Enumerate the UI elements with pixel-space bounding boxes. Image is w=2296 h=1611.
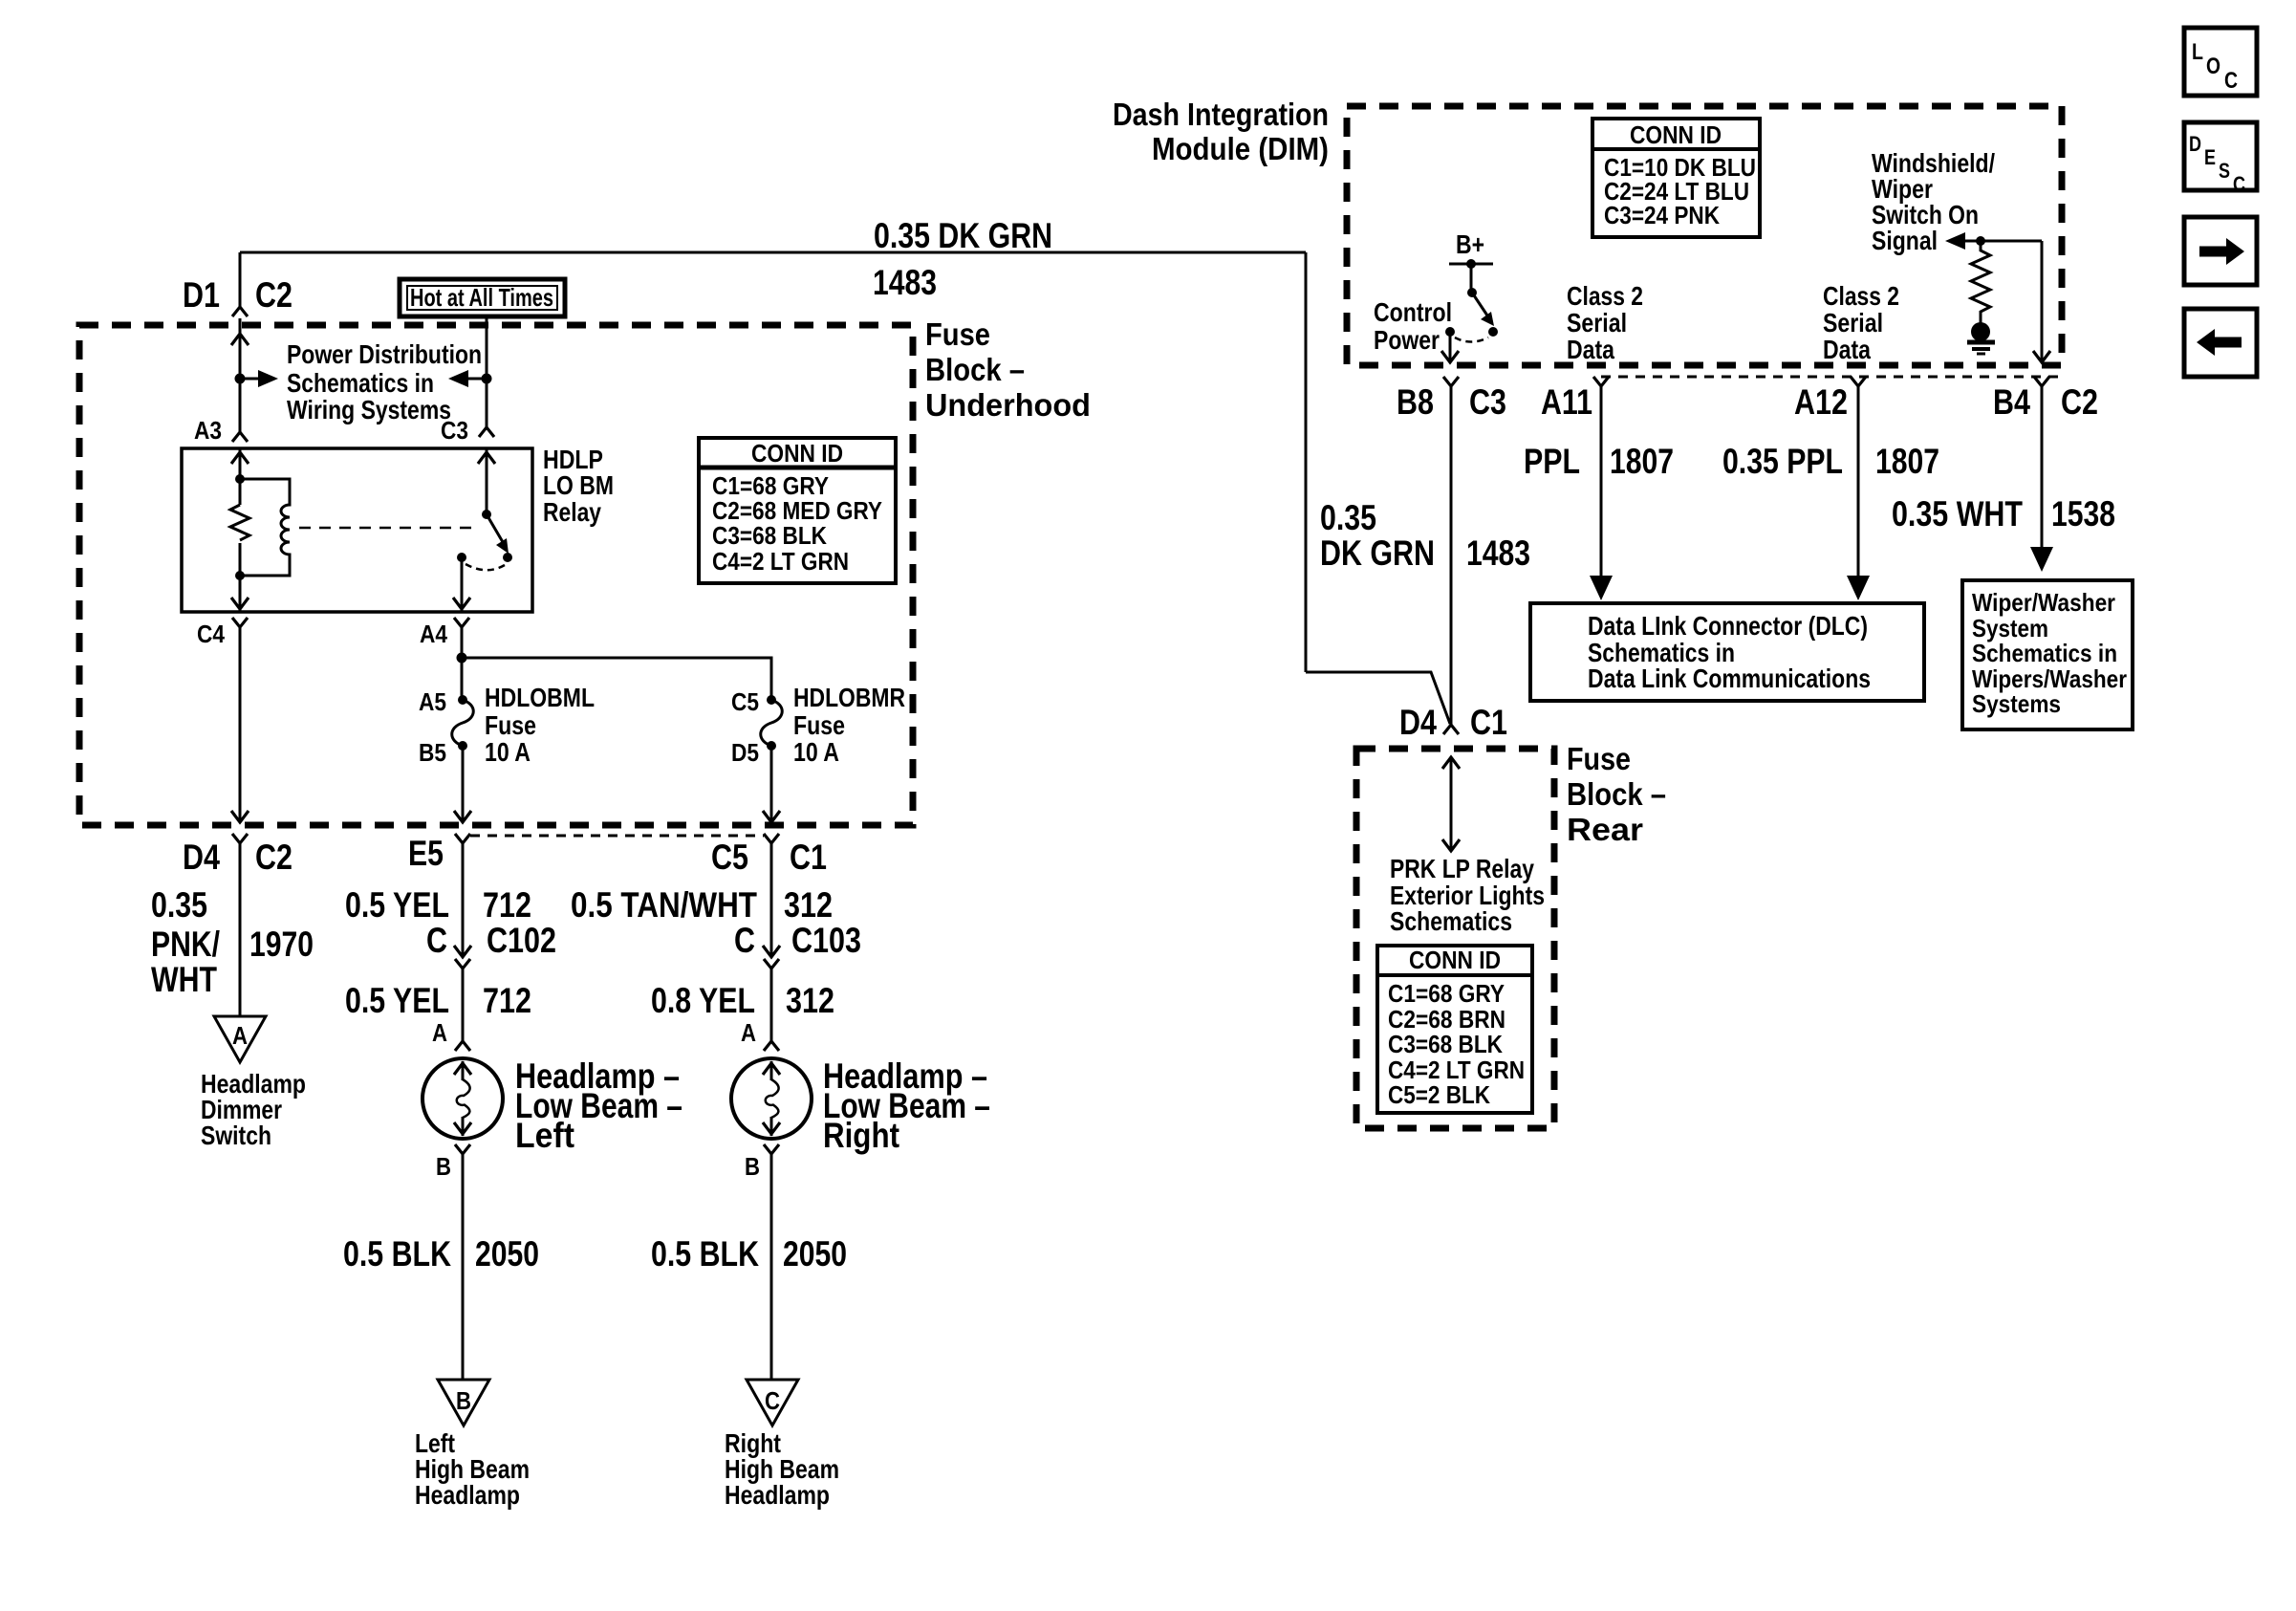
pin A4 xyxy=(454,618,469,627)
svg-text:0.5 BLK: 0.5 BLK xyxy=(343,1234,451,1274)
wire left lamp ground xyxy=(462,1154,465,1380)
ground wiper signal xyxy=(1971,322,1990,341)
svg-text:C1=68 GRY: C1=68 GRY xyxy=(1388,979,1505,1008)
relay output wire A4 xyxy=(461,557,464,612)
nav box arrow right xyxy=(2184,217,2257,285)
DIM dashed boundary xyxy=(1347,106,2062,365)
svg-text:DK GRN: DK GRN xyxy=(1320,533,1435,573)
svg-text:C103: C103 xyxy=(791,921,861,960)
svg-text:Block –: Block – xyxy=(925,352,1025,387)
CONN ID box rear xyxy=(1377,946,1532,1113)
svg-text:0.35: 0.35 xyxy=(1320,498,1376,537)
connector E5 xyxy=(455,834,470,843)
svg-text:Left: Left xyxy=(515,1116,574,1155)
svg-text:Serial: Serial xyxy=(1567,308,1627,337)
relay switch common wire xyxy=(486,448,488,514)
svg-text:0.35 PPL: 0.35 PPL xyxy=(1722,442,1843,481)
svg-text:1483: 1483 xyxy=(1466,533,1530,573)
svg-text:Wiring Systems: Wiring Systems xyxy=(287,395,451,425)
wire right lamp ground xyxy=(770,1154,773,1380)
CONN ID box DIM xyxy=(1592,119,1760,237)
svg-text:C3=68 BLK: C3=68 BLK xyxy=(1388,1030,1503,1058)
svg-text:D4: D4 xyxy=(1399,703,1437,742)
switch arm B+ xyxy=(1472,293,1487,316)
relay contacts xyxy=(457,553,466,562)
arrow from hot wire to note xyxy=(468,378,487,381)
svg-text:C2: C2 xyxy=(255,838,292,877)
nav box DESC xyxy=(2184,122,2257,190)
svg-text:B: B xyxy=(745,1152,760,1181)
svg-text:C1: C1 xyxy=(790,838,827,877)
wire branch to right fuse xyxy=(462,658,771,700)
svg-text:C3=68 BLK: C3=68 BLK xyxy=(712,521,827,550)
relay contact dashed arc xyxy=(466,564,505,570)
svg-text:B8: B8 xyxy=(1397,382,1434,422)
svg-text:Fuse: Fuse xyxy=(925,316,990,352)
svg-text:0.35: 0.35 xyxy=(151,885,207,925)
node junction left xyxy=(235,374,246,384)
svg-text:Power Distribution: Power Distribution xyxy=(287,339,482,369)
svg-text:Fuse: Fuse xyxy=(1567,741,1631,776)
wire 1483 horizontal to rear block xyxy=(1306,672,1450,724)
svg-text:Schematics in: Schematics in xyxy=(1972,639,2117,667)
svg-text:C4: C4 xyxy=(197,620,225,648)
svg-text:A: A xyxy=(741,1018,756,1047)
svg-text:Relay: Relay xyxy=(543,497,601,527)
svg-text:C2: C2 xyxy=(2061,382,2098,422)
wire C4 down to D4/C2 xyxy=(239,627,242,822)
svg-text:1807: 1807 xyxy=(1610,442,1674,481)
fuse block rear dashed boundary xyxy=(1356,749,1554,1128)
svg-text:2050: 2050 xyxy=(783,1234,847,1274)
svg-text:A: A xyxy=(232,1021,248,1050)
svg-text:B: B xyxy=(436,1152,451,1181)
pin A3 xyxy=(232,432,248,442)
svg-text:CONN ID: CONN ID xyxy=(1409,946,1501,974)
control power arrow xyxy=(1449,332,1452,361)
connector D1/C2 xyxy=(232,307,248,316)
connector face dashed line E5-C5 xyxy=(470,835,764,838)
svg-text:Class 2: Class 2 xyxy=(1823,281,1899,311)
wire left vertical drop to D1 xyxy=(239,252,242,307)
svg-text:Hot at All Times: Hot at All Times xyxy=(410,283,553,312)
pin A left lamp xyxy=(455,1041,470,1051)
connector D4/C1 xyxy=(1443,725,1459,734)
svg-text:Headlamp: Headlamp xyxy=(415,1480,520,1510)
svg-text:Systems: Systems xyxy=(1972,689,2061,718)
svg-text:1970: 1970 xyxy=(249,925,314,964)
svg-text:S: S xyxy=(2219,159,2230,183)
resistor wiper signal xyxy=(1971,241,1990,325)
relay switch arm xyxy=(487,514,503,542)
svg-text:B5: B5 xyxy=(419,738,446,767)
resistor (relay) xyxy=(230,505,249,540)
svg-text:2050: 2050 xyxy=(475,1234,539,1274)
connector face dashed line A11-B4 xyxy=(1601,376,2062,379)
svg-text:Headlamp: Headlamp xyxy=(725,1480,830,1510)
svg-text:Switch: Switch xyxy=(201,1121,271,1150)
svg-text:712: 712 xyxy=(483,885,531,925)
wire hot feed down xyxy=(486,316,488,427)
svg-text:D5: D5 xyxy=(731,738,759,767)
ground triangle B xyxy=(438,1380,489,1426)
svg-text:10 A: 10 A xyxy=(793,737,839,767)
svg-text:C: C xyxy=(426,921,447,960)
double arrow rear block xyxy=(1450,757,1453,851)
svg-text:PNK/: PNK/ xyxy=(151,925,220,964)
svg-text:Power: Power xyxy=(1374,325,1440,355)
wiper signal arrow xyxy=(1945,232,1965,250)
node A4 branch junction xyxy=(457,653,467,664)
headlamp low beam right bulb xyxy=(731,1058,812,1139)
svg-text:D1: D1 xyxy=(183,275,220,315)
svg-text:Data: Data xyxy=(1567,335,1614,364)
arrow to power distribution note xyxy=(240,378,258,381)
svg-text:B4: B4 xyxy=(1993,382,2030,422)
svg-text:0.8 YEL: 0.8 YEL xyxy=(651,981,755,1020)
svg-text:Right: Right xyxy=(823,1116,899,1155)
pin B right lamp xyxy=(764,1144,779,1154)
pin C4 xyxy=(232,618,248,627)
svg-text:0.5 BLK: 0.5 BLK xyxy=(651,1234,759,1274)
DLC box xyxy=(1530,603,1924,701)
pin B left lamp xyxy=(455,1144,470,1154)
svg-text:Block –: Block – xyxy=(1567,776,1666,812)
svg-text:PRK LP Relay: PRK LP Relay xyxy=(1390,854,1534,883)
connector B8/C3 xyxy=(1443,377,1459,386)
svg-text:A11: A11 xyxy=(1541,382,1592,422)
svg-text:Fuse: Fuse xyxy=(793,710,845,740)
wiper washer box xyxy=(1962,580,2133,729)
svg-text:Serial: Serial xyxy=(1823,308,1883,337)
svg-text:Data Link Communications: Data Link Communications xyxy=(1588,664,1871,693)
svg-text:A12: A12 xyxy=(1794,382,1848,422)
wire B5 to border xyxy=(462,746,465,822)
wire B4 to wiper box xyxy=(2041,386,2044,547)
svg-text:0.5 TAN/WHT: 0.5 TAN/WHT xyxy=(571,885,757,925)
svg-text:C3: C3 xyxy=(1469,382,1506,422)
svg-text:HDLOBML: HDLOBML xyxy=(485,683,595,712)
svg-text:Class 2: Class 2 xyxy=(1567,281,1643,311)
svg-text:E: E xyxy=(2204,145,2216,169)
connector C5/C1 xyxy=(764,834,779,843)
fuse HDLOBML xyxy=(458,695,467,705)
wire into fuse block xyxy=(239,318,242,432)
svg-text:B: B xyxy=(456,1386,471,1415)
nav box arrow left xyxy=(2184,309,2257,377)
connector C103 xyxy=(763,946,780,957)
svg-text:712: 712 xyxy=(483,981,531,1020)
svg-text:0.35 DK GRN: 0.35 DK GRN xyxy=(874,216,1052,255)
svg-text:A5: A5 xyxy=(419,687,446,716)
svg-text:E5: E5 xyxy=(408,834,444,873)
headlamp low beam left bulb xyxy=(422,1058,503,1139)
svg-text:Wiper/Washer: Wiper/Washer xyxy=(1972,588,2115,617)
svg-text:1483: 1483 xyxy=(873,263,937,302)
wire 1483 vertical mid xyxy=(1305,252,1308,672)
svg-text:Rear: Rear xyxy=(1567,812,1643,847)
svg-text:C102: C102 xyxy=(487,921,556,960)
svg-text:C5: C5 xyxy=(731,687,759,716)
svg-text:LO BM: LO BM xyxy=(543,470,614,500)
svg-text:312: 312 xyxy=(786,981,834,1020)
svg-text:Control: Control xyxy=(1374,297,1452,327)
svg-text:C3: C3 xyxy=(441,416,468,445)
svg-text:0.35 WHT: 0.35 WHT xyxy=(1892,494,2023,533)
svg-text:Data: Data xyxy=(1823,335,1871,364)
svg-text:B+: B+ xyxy=(1456,229,1484,259)
wire 1483 DIM drop xyxy=(1450,386,1453,725)
relay dashed actuation link xyxy=(299,527,478,530)
wire D5 to border xyxy=(770,746,773,822)
fuse block underhood dashed boundary xyxy=(79,325,913,825)
svg-text:0.5 YEL: 0.5 YEL xyxy=(345,981,449,1020)
svg-text:C: C xyxy=(2224,68,2238,94)
wire B4 inside DIM xyxy=(2041,241,2044,361)
svg-text:D4: D4 xyxy=(183,838,220,877)
ground triangle A xyxy=(214,1016,266,1062)
svg-text:Underhood: Underhood xyxy=(925,387,1091,423)
ground triangle C xyxy=(747,1380,798,1426)
fuse HDLOBMR xyxy=(767,695,776,705)
svg-text:PPL: PPL xyxy=(1524,442,1580,481)
pin A right lamp xyxy=(764,1041,779,1051)
svg-text:Schematics: Schematics xyxy=(1390,906,1512,936)
svg-text:Schematics in: Schematics in xyxy=(287,368,434,398)
svg-text:L: L xyxy=(2192,39,2203,65)
svg-text:CONN ID: CONN ID xyxy=(751,439,843,468)
svg-text:D: D xyxy=(2189,132,2201,156)
svg-text:C2: C2 xyxy=(255,275,292,315)
connector D4/C2 lower left xyxy=(232,834,248,843)
svg-text:A: A xyxy=(432,1018,447,1047)
svg-text:Fuse: Fuse xyxy=(485,710,536,740)
svg-text:1538: 1538 xyxy=(2051,494,2115,533)
wire 1483 top horizontal xyxy=(240,251,1306,254)
svg-text:Dash Integration: Dash Integration xyxy=(1113,97,1329,132)
wire A12 to DLC xyxy=(1857,386,1860,576)
svg-text:C5=2 BLK: C5=2 BLK xyxy=(1388,1080,1490,1109)
svg-text:CONN ID: CONN ID xyxy=(1630,120,1722,149)
svg-text:C1: C1 xyxy=(1470,703,1507,742)
svg-text:A3: A3 xyxy=(194,416,222,445)
svg-text:C: C xyxy=(734,921,755,960)
relay HDLP LO BM box xyxy=(182,448,532,612)
wire A11 to DLC xyxy=(1600,386,1603,576)
svg-text:Data LInk Connector (DLC): Data LInk Connector (DLC) xyxy=(1588,611,1868,641)
svg-text:C: C xyxy=(765,1386,780,1415)
relay coil leg wire xyxy=(239,448,242,612)
svg-text:Signal: Signal xyxy=(1872,226,1938,255)
svg-text:WHT: WHT xyxy=(151,960,217,999)
CONN ID box underhood xyxy=(699,438,896,583)
Hot at All Times box xyxy=(400,279,565,316)
connector A11 xyxy=(1593,377,1609,386)
svg-text:C4=2 LT GRN: C4=2 LT GRN xyxy=(712,547,849,576)
nav box LOC xyxy=(2184,28,2257,96)
pin C3 xyxy=(479,427,494,437)
wire A4 down to junction xyxy=(461,627,464,700)
svg-text:0.5 YEL: 0.5 YEL xyxy=(345,885,449,925)
svg-text:A4: A4 xyxy=(420,620,447,648)
connector B4/C2 xyxy=(2034,377,2049,386)
svg-text:C3=24 PNK: C3=24 PNK xyxy=(1604,201,1720,229)
connector A12 xyxy=(1851,377,1866,386)
svg-text:10 A: 10 A xyxy=(485,737,531,767)
svg-text:312: 312 xyxy=(784,885,833,925)
svg-text:1807: 1807 xyxy=(1875,442,1939,481)
svg-text:HDLOBMR: HDLOBMR xyxy=(793,683,905,712)
relay coil xyxy=(240,479,290,576)
connector C102 xyxy=(454,946,471,957)
svg-text:C: C xyxy=(2233,172,2245,196)
svg-text:Module (DIM): Module (DIM) xyxy=(1152,131,1329,166)
svg-text:O: O xyxy=(2206,54,2220,79)
svg-text:C5: C5 xyxy=(711,838,748,877)
node junction on hot wire xyxy=(482,374,492,384)
